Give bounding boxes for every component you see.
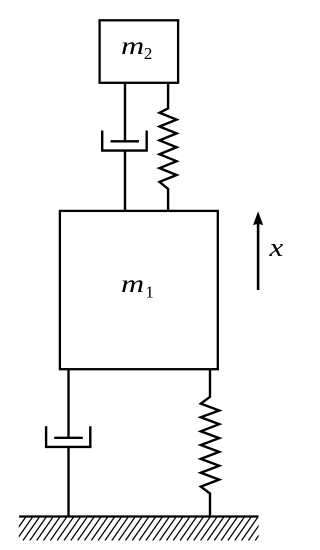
svg-text:1: 1 [145, 283, 154, 302]
spring K1 [201, 369, 219, 516]
damper D2 rod lower [124, 151, 126, 211]
damper D1 piston plate [54, 437, 83, 439]
damper D1 cup [46, 426, 90, 447]
arrow x head [253, 211, 263, 225]
svg-text:m: m [121, 33, 144, 60]
svg-text:m: m [121, 271, 144, 298]
damper D2 rod upper [124, 83, 126, 142]
damper D1 rod upper [67, 369, 69, 438]
svg-text:x: x [268, 233, 284, 262]
spring K2 [160, 83, 177, 211]
ground hatching [3, 517, 272, 541]
ground line [19, 515, 258, 517]
svg-text:2: 2 [144, 44, 153, 63]
damper D1 rod lower [67, 447, 69, 517]
mass m2 box [100, 20, 179, 83]
damper D2 cup [102, 131, 147, 151]
mass m1 box [60, 211, 218, 369]
damper D2 piston plate [111, 140, 140, 142]
arrow x shaft [257, 223, 260, 290]
